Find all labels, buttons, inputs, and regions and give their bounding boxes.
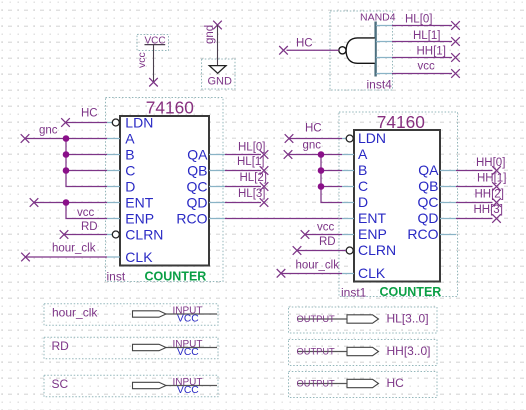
svg-text:gnd: gnd (204, 25, 216, 44)
wire vcc net to left ENT,ENP (30, 198, 107, 219)
svg-text:hour_clk: hour_clk (52, 306, 98, 320)
svg-text:gnc: gnc (303, 140, 322, 152)
svg-text:HC: HC (296, 38, 313, 50)
wire HL[0] from left QA (225, 142, 268, 159)
svg-text:inst1: inst1 (341, 285, 367, 299)
wire vcc to NAND input 4 (392, 61, 460, 78)
svg-text:CLRN: CLRN (125, 226, 163, 242)
output pin HH[3..0] (289, 340, 438, 366)
input pin SC (44, 375, 218, 397)
wire HL[3] from left QD (225, 188, 268, 207)
svg-text:LDN: LDN (125, 114, 153, 130)
wire HC to right LDN (285, 123, 342, 143)
NAND4 gate U-inst4 (330, 11, 396, 92)
svg-text:QD: QD (418, 210, 439, 226)
input pin RD (44, 337, 218, 359)
wire RD to left CLRN (60, 221, 107, 239)
svg-text:vcc: vcc (418, 61, 436, 73)
net label vcc (rotated) (136, 52, 148, 68)
svg-text:gnc: gnc (39, 125, 58, 137)
74160 counter U-inst1 (right) (339, 112, 458, 299)
svg-text:vcc: vcc (317, 222, 335, 234)
svg-text:RCO: RCO (407, 226, 438, 242)
svg-text:RCO: RCO (176, 210, 207, 226)
svg-text:QC: QC (187, 178, 208, 194)
svg-text:VCC: VCC (177, 347, 199, 358)
svg-text:C: C (358, 178, 368, 194)
svg-text:HH[1]: HH[1] (417, 46, 446, 58)
wire HL[2] from left QC (225, 172, 268, 191)
junction dot right A row (318, 151, 325, 158)
junction dot right B row (318, 167, 325, 174)
svg-text:HH[3]: HH[3] (474, 204, 503, 216)
wire gnd net (217, 25, 219, 65)
svg-text:hour_clk: hour_clk (52, 243, 96, 255)
input pin hour_clk (44, 304, 218, 326)
svg-text:QC: QC (418, 194, 439, 210)
svg-text:C: C (125, 162, 135, 178)
wire vcc net from VCC symbol (153, 45, 155, 82)
svg-text:HC: HC (387, 376, 405, 390)
vcc power symbol (top) (137, 35, 169, 51)
svg-text:RD: RD (52, 339, 70, 353)
svg-text:VCC: VCC (177, 314, 199, 325)
svg-text:SC: SC (52, 377, 69, 391)
wire HH[1] to NAND input 3 (392, 46, 460, 62)
junction dot B row (63, 151, 70, 158)
svg-text:QA: QA (418, 162, 439, 178)
svg-text:LDN: LDN (358, 130, 386, 146)
svg-text:QD: QD (187, 194, 208, 210)
svg-text:COUNTER: COUNTER (380, 285, 442, 299)
svg-text:CLK: CLK (125, 249, 153, 265)
svg-text:ENP: ENP (358, 226, 387, 242)
wire HH[1] from right QB (456, 173, 506, 191)
svg-text:HL[3]: HL[3] (238, 188, 266, 200)
output pin HC (289, 372, 438, 398)
right counter CLRN bubble (346, 247, 353, 254)
svg-text:QA: QA (187, 146, 208, 162)
svg-text:74160: 74160 (377, 112, 425, 132)
svg-text:vcc: vcc (77, 207, 95, 219)
wire gnd net to left A,B,C,D (21, 125, 107, 187)
svg-text:QB: QB (418, 178, 438, 194)
svg-text:A: A (125, 130, 135, 146)
svg-text:D: D (358, 194, 368, 210)
svg-text:HH[0]: HH[0] (476, 157, 505, 169)
svg-text:OUTPUT: OUTPUT (297, 379, 336, 389)
left counter port names (125, 114, 208, 265)
svg-text:HH[3..0]: HH[3..0] (387, 344, 431, 358)
wire gnd net to right A,B,C,D (284, 140, 342, 203)
node X dangling end of gnd net (top) (213, 21, 222, 30)
svg-text:B: B (358, 162, 367, 178)
svg-text:HC: HC (81, 108, 98, 120)
output pin HL[3..0] (289, 307, 438, 333)
wire RD to right CLRN (293, 236, 346, 255)
svg-text:D: D (125, 178, 135, 194)
svg-text:ENT: ENT (125, 194, 153, 210)
wire hour_clk to right CLK (277, 259, 342, 277)
svg-text:CLK: CLK (358, 265, 386, 281)
wire vcc to right ENP (301, 222, 342, 239)
left counter LDN bubble (112, 119, 119, 126)
svg-text:inst4: inst4 (367, 78, 393, 92)
svg-text:RD: RD (81, 221, 98, 233)
wire hour_clk to left CLK (21, 243, 107, 262)
wire HL[1] to NAND input 2 (392, 30, 460, 46)
left counter CLRN bubble (112, 231, 119, 238)
svg-text:vcc: vcc (136, 52, 148, 68)
svg-text:COUNTER: COUNTER (145, 269, 207, 283)
svg-text:HL[3..0]: HL[3..0] (387, 312, 429, 326)
wire HC to left LDN (61, 108, 107, 127)
svg-text:VCC: VCC (177, 385, 199, 396)
right counter port names (358, 130, 439, 281)
junction dot right C row (318, 183, 325, 190)
wire HH[3] from right QD (456, 204, 503, 223)
NAND4 input pin stubs (376, 26, 392, 74)
svg-text:HL[0]: HL[0] (405, 14, 433, 26)
right counter pin stubs (342, 139, 456, 274)
wire HL[1] from left QB (225, 156, 268, 175)
wire HC from NAND output (279, 38, 339, 55)
gnd ground symbol (202, 59, 236, 89)
svg-text:GND: GND (208, 75, 233, 87)
svg-text:B: B (125, 146, 134, 162)
node X dangling end of vcc net (149, 78, 158, 87)
svg-text:inst: inst (107, 269, 126, 283)
svg-text:RD: RD (319, 236, 336, 248)
svg-text:HH[1]: HH[1] (477, 173, 506, 185)
wire HH[2] from right QC (456, 189, 504, 207)
junction dot C row (63, 167, 70, 174)
svg-text:hour_clk: hour_clk (296, 259, 340, 271)
svg-text:HC: HC (305, 123, 322, 135)
left counter pin stubs (107, 123, 225, 258)
svg-text:HL[1]: HL[1] (413, 30, 441, 42)
right counter LDN bubble (346, 135, 353, 142)
wire HH[0] from right QA (456, 157, 505, 175)
74160 counter U-inst (left) (106, 98, 224, 284)
svg-text:ENP: ENP (125, 210, 154, 226)
junction dot ENT row (63, 199, 70, 206)
svg-text:HL[2]: HL[2] (240, 172, 268, 184)
wire RCO to right ENT (225, 218, 342, 220)
svg-text:OUTPUT: OUTPUT (297, 347, 336, 357)
svg-text:OUTPUT: OUTPUT (297, 314, 336, 324)
svg-text:QB: QB (187, 162, 207, 178)
net label gnd (rotated) (204, 25, 216, 44)
svg-text:ENT: ENT (358, 210, 386, 226)
wire HL[0] to NAND input 1 (392, 14, 460, 30)
svg-text:A: A (358, 146, 368, 162)
svg-text:NAND4: NAND4 (360, 12, 396, 24)
junction dot A row (63, 135, 70, 142)
svg-text:CLRN: CLRN (358, 242, 396, 258)
